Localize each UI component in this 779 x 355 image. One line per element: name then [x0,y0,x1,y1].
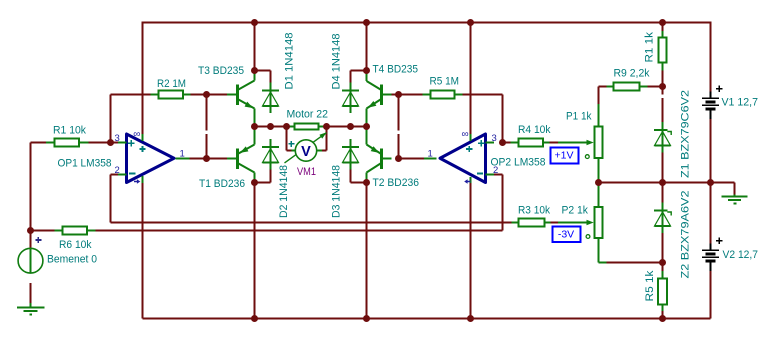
svg-text:R5 1k: R5 1k [644,270,656,302]
svg-text:2: 2 [115,165,120,176]
svg-text:OP2 LM358: OP2 LM358 [491,157,546,169]
svg-text:D3 1N4148: D3 1N4148 [331,165,343,218]
svg-text:∞: ∞ [133,129,140,140]
svg-text:1: 1 [428,149,433,160]
svg-text:3: 3 [492,133,497,144]
svg-text:P1 1k: P1 1k [566,111,592,123]
svg-text:+1V: +1V [555,150,574,162]
svg-text:Bemenet 0: Bemenet 0 [47,254,97,266]
svg-text:T3 BD235: T3 BD235 [198,65,244,77]
svg-text:V1 12,7: V1 12,7 [722,97,759,109]
svg-text:R4 10k: R4 10k [518,124,551,136]
svg-text:R6 10k: R6 10k [59,239,92,251]
svg-text:P2 1k: P2 1k [562,205,589,217]
svg-text:VM1: VM1 [297,166,316,178]
svg-text:D2 1N4148: D2 1N4148 [278,165,290,218]
svg-text:Z2 BZX79A6V2: Z2 BZX79A6V2 [680,191,692,279]
svg-text:∞: ∞ [462,129,469,140]
svg-text:3: 3 [115,133,120,144]
svg-text:R1 1k: R1 1k [644,31,656,62]
svg-text:D4 1N4148: D4 1N4148 [331,33,343,89]
svg-text:R5 1M: R5 1M [430,76,460,88]
svg-text:V: V [301,144,311,160]
svg-text:1: 1 [180,149,185,160]
svg-text:R1 10k: R1 10k [53,125,86,137]
svg-text:-3V: -3V [558,229,574,241]
svg-text:R2 1M: R2 1M [157,78,186,90]
svg-text:T2 BD236: T2 BD236 [373,177,420,189]
svg-text:R9 2,2k: R9 2,2k [614,68,650,80]
svg-text:Motor 22: Motor 22 [287,109,329,121]
svg-text:OP1 LM358: OP1 LM358 [58,158,112,170]
svg-text:T1 BD236: T1 BD236 [199,178,245,190]
svg-text:D1 1N4148: D1 1N4148 [284,33,296,90]
svg-text:T4 BD235: T4 BD235 [373,64,419,76]
svg-text:R3 10k: R3 10k [518,205,550,217]
svg-text:V2 12,7: V2 12,7 [723,249,759,261]
svg-text:Z1 BZX79C6V2: Z1 BZX79C6V2 [680,90,692,178]
